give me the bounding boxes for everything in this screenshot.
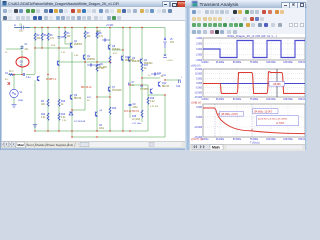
plot 3 delta annotation box bbox=[257, 116, 299, 126]
svg-text:100: 100 bbox=[67, 36, 72, 38]
svg-text:10.000: 10.000 bbox=[195, 74, 203, 76]
svg-text:0.000u: 0.000u bbox=[201, 62, 209, 64]
plot 3 cursor dashed lines bbox=[215, 104, 252, 137]
svg-text:Q5: Q5 bbox=[140, 86, 144, 88]
svg-text:R6: R6 bbox=[50, 35, 54, 37]
svg-text:BD140: BD140 bbox=[162, 86, 170, 88]
wire vertical x57 bbox=[58, 28, 60, 132]
svg-text:R=0.22 5W K2: R=0.22 5W K2 bbox=[124, 111, 140, 113]
plot 1 v(IN) square wave trace bbox=[203, 41, 305, 58]
wire vertical x108 bbox=[109, 28, 111, 132]
wire vertical x163 lower bbox=[164, 95, 166, 137]
svg-text:0.65: 0.65 bbox=[74, 55, 79, 57]
svg-text:100.000u: 100.000u bbox=[266, 139, 276, 141]
resistor R2 bbox=[34, 33, 36, 40]
resistor R5 bbox=[41, 33, 43, 40]
plot 2 zero baseline (blue trace) bbox=[203, 83, 305, 85]
transistor Q3 bbox=[128, 57, 130, 62]
transistor Q4 bbox=[140, 59, 142, 64]
svg-text:41.1: 41.1 bbox=[9, 71, 14, 73]
svg-text:R8: R8 bbox=[99, 33, 103, 35]
svg-text:220u: 220u bbox=[133, 107, 139, 109]
svg-text:5.000: 5.000 bbox=[196, 78, 202, 80]
capacitor C5b bbox=[102, 39, 110, 42]
svg-text:White_Dragon_2K_v1.CIR (HF: fo: White_Dragon_2K_v1.CIR (HF: for 1....) bbox=[227, 34, 277, 38]
svg-text:Text 2: Text 2 bbox=[27, 143, 35, 147]
resistor R17 bbox=[141, 64, 143, 71]
transistor Q10 bbox=[121, 56, 123, 61]
svg-text:C5: C5 bbox=[61, 37, 65, 39]
left schematic editor window bbox=[0, 0, 189, 150]
svg-text:1u: 1u bbox=[148, 75, 151, 77]
svg-text:1.2u: 1.2u bbox=[26, 77, 31, 79]
resistor R1a bbox=[9, 74, 14, 76]
wire y78 right bbox=[142, 77, 160, 79]
resistor R9 bbox=[96, 64, 98, 71]
svg-text:+C6: +C6 bbox=[96, 65, 101, 67]
svg-text:BD139: BD139 bbox=[74, 98, 82, 100]
plot 2 cursor line bbox=[276, 69, 278, 97]
plot 3 annotation box 2 bbox=[253, 109, 279, 114]
svg-text:C:\UK2.2\DATA\Patron\White_Dra: C:\UK2.2\DATA\Patron\White_Dragon\Naula\… bbox=[8, 2, 119, 6]
wire bottom rail y137 bbox=[72, 136, 165, 138]
svg-text:BD139-16: BD139-16 bbox=[81, 87, 92, 89]
svg-text:R2: R2 bbox=[37, 35, 41, 37]
resistor R15 bbox=[141, 110, 143, 117]
svg-text:Transient Analysis: Transient Analysis bbox=[200, 2, 239, 8]
svg-text:4.000: 4.000 bbox=[196, 38, 202, 40]
right window title bar bbox=[185, 0, 307, 8]
temp marker bbox=[8, 82, 10, 85]
capacitor C4 bbox=[14, 26, 30, 30]
highlight ellipse bbox=[16, 57, 29, 67]
svg-text:(25.066u,-2.817): (25.066u,-2.817) bbox=[221, 114, 238, 116]
svg-text:+44.9: +44.9 bbox=[167, 60, 173, 62]
svg-text:50.000u: 50.000u bbox=[233, 99, 242, 101]
left window title bar bbox=[1, 0, 190, 7]
transistor Q9 bbox=[108, 45, 110, 50]
wire vertical x83 bbox=[84, 28, 86, 111]
svg-text:Q12: Q12 bbox=[162, 83, 167, 85]
left tab bar bbox=[1, 141, 190, 149]
resistor R10 bbox=[58, 99, 60, 106]
wire y95 output node bbox=[148, 94, 165, 96]
svg-text:10 (2W): 10 (2W) bbox=[132, 119, 140, 121]
svg-text:1.52: 1.52 bbox=[61, 52, 66, 54]
left window close button bbox=[177, 1, 190, 8]
capacitor C11 bbox=[151, 73, 160, 76]
svg-text:75.000u: 75.000u bbox=[250, 62, 259, 64]
right window buttons bbox=[281, 2, 290, 9]
svg-text:Q9: Q9 bbox=[112, 46, 116, 48]
svg-text:v(IN) (V): v(IN) (V) bbox=[191, 65, 201, 68]
svg-text:125.000u: 125.000u bbox=[283, 139, 293, 141]
svg-text:45.2: 45.2 bbox=[113, 53, 118, 55]
resistor R14 bbox=[109, 107, 111, 114]
transistor Q2 bbox=[83, 55, 85, 60]
svg-text:0.000: 0.000 bbox=[196, 107, 202, 109]
wire rail y62 bbox=[59, 61, 110, 63]
capacitor C5 bbox=[58, 37, 61, 39]
wire mid rail y48 bbox=[35, 47, 72, 49]
wire vertical x46 bbox=[47, 28, 49, 132]
plot 3 x-axis labels bbox=[201, 139, 308, 141]
svg-text:R3: R3 bbox=[67, 33, 71, 35]
transistor Q5 bbox=[150, 89, 152, 94]
source arrow V5 bbox=[163, 54, 167, 57]
resistor R4 bbox=[47, 99, 49, 106]
svg-text:Q10: Q10 bbox=[125, 57, 130, 59]
capacitor C3 bbox=[23, 73, 24, 76]
svg-text:0.000: 0.000 bbox=[196, 83, 202, 85]
right window right frame bbox=[305, 8, 308, 150]
left toolbar row 1 bbox=[1, 7, 190, 15]
svg-text:100.000u: 100.000u bbox=[266, 99, 276, 101]
svg-text:2.2k: 2.2k bbox=[41, 117, 46, 119]
svg-text:C10: C10 bbox=[176, 86, 181, 88]
capacitor C1 bbox=[21, 47, 24, 48]
wire stub q outputs bbox=[65, 44, 123, 50]
svg-text:0.000u: 0.000u bbox=[201, 99, 209, 101]
svg-text:0.22 5W: 0.22 5W bbox=[150, 106, 159, 108]
svg-text:125.000u: 125.000u bbox=[283, 62, 293, 64]
svg-text:125.000u: 125.000u bbox=[283, 99, 293, 101]
svg-text:22k: 22k bbox=[37, 38, 42, 40]
svg-text:10u: 10u bbox=[25, 49, 30, 51]
svg-text:v(AB) (V): v(AB) (V) bbox=[191, 102, 201, 105]
ground mid bbox=[33, 125, 37, 128]
source V1 bbox=[10, 89, 18, 97]
resistor R3 bbox=[64, 31, 66, 38]
wire y110 bbox=[72, 109, 85, 111]
right transient analysis window bbox=[185, 0, 307, 150]
left toolbar row 2 bbox=[1, 14, 190, 22]
resistor R12 bbox=[47, 113, 49, 120]
svg-text:R11: R11 bbox=[87, 97, 92, 99]
svg-text:R16: R16 bbox=[150, 98, 155, 100]
svg-text:Models 2: Models 2 bbox=[36, 143, 48, 147]
svg-text:10u: 10u bbox=[19, 31, 24, 33]
svg-text:25.000u: 25.000u bbox=[216, 99, 225, 101]
svg-text:(54.983u,-12.047): (54.983u,-12.047) bbox=[254, 111, 272, 113]
svg-text:IN: IN bbox=[14, 25, 17, 27]
svg-text:R12: R12 bbox=[41, 114, 46, 116]
plot 3 v(OUT) decay trace bbox=[203, 108, 305, 134]
svg-text:2.2k: 2.2k bbox=[62, 120, 67, 122]
svg-text:100: 100 bbox=[87, 36, 92, 38]
wire input branch bbox=[6, 45, 22, 104]
svg-text:Q8: Q8 bbox=[99, 110, 103, 112]
svg-text:Q1: Q1 bbox=[74, 41, 78, 43]
svg-text:25.000u: 25.000u bbox=[216, 139, 225, 141]
svg-text:-2.000: -2.000 bbox=[195, 55, 202, 57]
svg-text:1u: 1u bbox=[5, 79, 8, 81]
svg-text:R17: R17 bbox=[144, 65, 149, 67]
svg-text:2N5551: 2N5551 bbox=[87, 59, 96, 61]
svg-text:Q2: Q2 bbox=[87, 56, 91, 58]
plot 2 x-axis labels bbox=[201, 99, 308, 101]
plot 2 cursor value box bbox=[269, 82, 285, 87]
svg-text:0.22: 0.22 bbox=[150, 101, 155, 103]
transistor Q6 bbox=[70, 95, 72, 100]
svg-text:100: 100 bbox=[41, 104, 46, 106]
svg-text:1k: 1k bbox=[144, 68, 147, 70]
svg-text:V1: V1 bbox=[20, 92, 24, 94]
svg-text:49.8: 49.8 bbox=[51, 45, 56, 47]
plot 1 frame and grid bbox=[203, 38, 305, 60]
svg-text:v5: v5 bbox=[170, 39, 173, 41]
svg-text:1u: 1u bbox=[132, 85, 135, 87]
svg-text:Q6: Q6 bbox=[74, 95, 78, 97]
svg-text:C12 100n: C12 100n bbox=[132, 123, 142, 125]
resistor R7 bbox=[84, 31, 86, 38]
resistor R16 bbox=[147, 97, 149, 104]
svg-text:C4: C4 bbox=[19, 25, 23, 27]
svg-text:v(OUT) (V): v(OUT) (V) bbox=[191, 138, 203, 141]
plot 1 x-axis labels bbox=[201, 62, 308, 64]
resistor R13 bbox=[58, 113, 60, 120]
svg-text:100n: 100n bbox=[99, 128, 105, 130]
plot 2 y-axis labels bbox=[194, 69, 203, 99]
svg-text:R=RB*1.2: R=RB*1.2 bbox=[46, 79, 57, 81]
plot 3 annotation box 1 bbox=[220, 112, 244, 117]
wire vertical x141 bbox=[141, 28, 143, 123]
resistor R6 bbox=[47, 33, 49, 40]
plot 3 y-axis labels bbox=[194, 107, 203, 139]
svg-text:Q7: Q7 bbox=[112, 87, 116, 89]
junction dots bbox=[13, 27, 165, 138]
svg-text:+5 40V: +5 40V bbox=[106, 25, 114, 27]
svg-text:C8: C8 bbox=[99, 125, 103, 127]
ground V1 bbox=[12, 105, 17, 108]
svg-text:R15: R15 bbox=[132, 116, 137, 118]
svg-text:SINE: SINE bbox=[18, 100, 24, 102]
svg-text:1k: 1k bbox=[61, 104, 64, 106]
svg-text:-10.000: -10.000 bbox=[194, 127, 203, 129]
wire input rail y74.5 bbox=[8, 74, 35, 76]
transistor Q8 bbox=[95, 112, 97, 117]
svg-text:4.7k: 4.7k bbox=[50, 38, 55, 40]
svg-text:D2 1N4148: D2 1N4148 bbox=[74, 121, 86, 123]
svg-text:1k: 1k bbox=[5, 52, 8, 54]
svg-text:2N5401: 2N5401 bbox=[112, 49, 121, 51]
svg-text:TIP3055: TIP3055 bbox=[140, 89, 149, 91]
right tab bar bbox=[190, 144, 305, 151]
svg-text:0.000: 0.000 bbox=[196, 49, 202, 51]
svg-text:-10.000: -10.000 bbox=[194, 92, 203, 94]
svg-text:100.000u: 100.000u bbox=[266, 62, 276, 64]
svg-text:50.000u: 50.000u bbox=[233, 139, 242, 141]
svg-text:4.7k: 4.7k bbox=[99, 36, 104, 38]
svg-text:-5.000: -5.000 bbox=[195, 117, 202, 119]
svg-text:50.000u: 50.000u bbox=[233, 62, 242, 64]
svg-text:R13: R13 bbox=[61, 114, 66, 116]
transistor Q1 bbox=[70, 43, 72, 48]
svg-text:R14: R14 bbox=[112, 108, 117, 110]
wire vertical x40 bbox=[41, 28, 43, 49]
svg-text:R10: R10 bbox=[61, 101, 66, 103]
svg-text:OUT: OUT bbox=[181, 77, 182, 79]
wire vertical x146 bbox=[147, 85, 149, 131]
svg-text:-68.286: -68.286 bbox=[273, 84, 282, 86]
wire vertical x128 bbox=[129, 28, 131, 119]
capacitor C7 bbox=[129, 83, 130, 86]
diode D1 bbox=[69, 112, 73, 115]
svg-text:49.8: 49.8 bbox=[96, 31, 101, 33]
svg-text:C7: C7 bbox=[132, 82, 136, 84]
resistor R11 bbox=[109, 56, 111, 63]
battery V5 bbox=[163, 37, 167, 48]
svg-text:25.000u: 25.000u bbox=[216, 62, 225, 64]
svg-text:47u 16V: 47u 16V bbox=[96, 68, 105, 70]
transistor Q13 bbox=[57, 61, 59, 66]
wire vertical x121 bbox=[122, 28, 124, 132]
wire vertical x70 bbox=[71, 28, 73, 138]
wire top supply rail bbox=[14, 27, 165, 29]
wire y85 right bbox=[130, 84, 148, 86]
right toolbar rows bbox=[190, 8, 306, 16]
svg-text:MJE340: MJE340 bbox=[125, 60, 134, 62]
svg-text:vs 70CT: vs 70CT bbox=[276, 123, 285, 125]
svg-text:2N5551: 2N5551 bbox=[74, 44, 83, 46]
plot 3 frame and grid bbox=[203, 104, 305, 137]
svg-text:40V: 40V bbox=[170, 42, 175, 44]
svg-text:R4: R4 bbox=[41, 101, 45, 103]
svg-text:R7: R7 bbox=[87, 33, 91, 35]
svg-text:d(-29.917u,-9.231u) dT=309m: d(-29.917u,-9.231u) dT=309m bbox=[258, 119, 287, 121]
wire vertical x33 bbox=[34, 28, 36, 132]
svg-text:75.000u: 75.000u bbox=[250, 99, 259, 101]
svg-text:C1: C1 bbox=[25, 44, 29, 46]
plot 2 v(AB) red trace bbox=[203, 72, 305, 94]
svg-text:-20: -20 bbox=[19, 61, 23, 64]
left window min/max buttons bbox=[162, 1, 170, 8]
transistor Q7 bbox=[108, 87, 110, 92]
svg-text:Power Supplies 2: Power Supplies 2 bbox=[47, 143, 69, 147]
transistor Q12 bbox=[158, 82, 160, 87]
svg-text:C9: C9 bbox=[133, 104, 137, 106]
wire y97 bbox=[97, 96, 110, 98]
svg-text:Q4: Q4 bbox=[144, 60, 148, 62]
plot 3 data point markers bbox=[218, 113, 253, 131]
capacitor C6 bbox=[87, 64, 97, 67]
svg-text:Info: Info bbox=[69, 143, 74, 147]
transistor Q11 bbox=[37, 76, 39, 81]
svg-text:15.000: 15.000 bbox=[195, 69, 203, 71]
svg-text:Main: Main bbox=[18, 143, 25, 147]
svg-text:0y: 0y bbox=[20, 64, 22, 66]
plot area canvas bbox=[190, 34, 306, 144]
wire y80 output bbox=[165, 79, 180, 81]
plot 1 y-axis labels bbox=[195, 38, 202, 62]
svg-text:TR2: TR2 bbox=[162, 75, 167, 77]
svg-text:2.000: 2.000 bbox=[196, 44, 202, 46]
schematic canvas bbox=[2, 20, 186, 141]
capacitor C10 bbox=[179, 80, 181, 84]
svg-text:Main: Main bbox=[212, 146, 220, 150]
wire vertical x163 source leg bbox=[164, 28, 166, 57]
wire vertical x63 bbox=[64, 28, 66, 45]
wire vertical x95 bbox=[96, 28, 98, 132]
svg-text:2SC5200: 2SC5200 bbox=[112, 90, 122, 92]
plot 2 frame and grid bbox=[203, 69, 305, 97]
svg-text:2.2k: 2.2k bbox=[61, 117, 66, 119]
capacitor C9 bbox=[129, 104, 132, 105]
svg-text:56: 56 bbox=[87, 100, 90, 102]
resistor R8 bbox=[96, 31, 98, 38]
svg-text:-5.000: -5.000 bbox=[195, 88, 202, 90]
wire bottom rail y131 bbox=[35, 130, 148, 132]
